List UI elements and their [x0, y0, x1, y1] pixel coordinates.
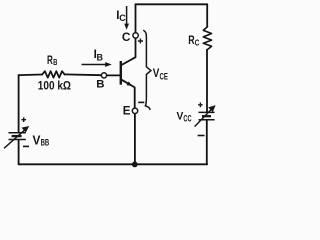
svg-text:CC: CC	[183, 114, 192, 124]
svg-text:100 kΩ: 100 kΩ	[38, 78, 71, 92]
svg-text:B: B	[53, 58, 57, 67]
svg-text:C: C	[119, 13, 126, 23]
svg-text:V: V	[33, 132, 41, 147]
svg-text:E: E	[123, 104, 131, 117]
svg-text:BB: BB	[41, 138, 50, 148]
svg-text:B: B	[96, 78, 104, 90]
svg-text:C: C	[195, 38, 200, 48]
svg-text:C: C	[122, 30, 131, 44]
svg-text:CE: CE	[160, 72, 168, 82]
svg-text:B: B	[97, 52, 104, 62]
